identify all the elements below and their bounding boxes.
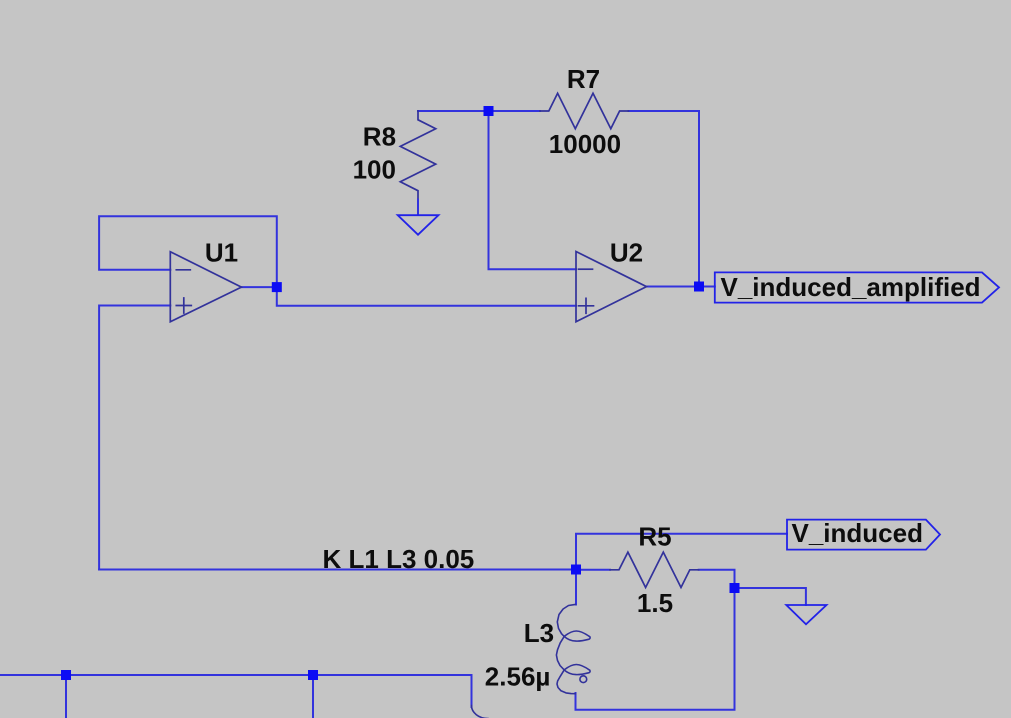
wire node down to L3 top (575, 570, 577, 605)
svg-text:L3: L3 (524, 618, 554, 648)
wire U1 output to U2 plus input (277, 287, 576, 306)
op-amp U2 (576, 252, 647, 322)
svg-text:K L1 L3 0.05: K L1 L3 0.05 (323, 544, 475, 574)
junction node R8/R7 (484, 106, 494, 116)
wire L3 bottom loop to R5 node (576, 588, 735, 710)
svg-text:V_induced_amplified: V_induced_amplified (721, 272, 981, 302)
svg-text:V_induced: V_induced (792, 518, 923, 548)
resistor R8 (400, 111, 435, 200)
wire bottom-left drop 2 (312, 675, 314, 718)
wire node to ground stub (735, 588, 806, 605)
svg-text:R5: R5 (638, 522, 671, 552)
wire R8 top to junction (418, 110, 489, 112)
wire K coupling line (99, 569, 576, 571)
resistor R5 (610, 552, 699, 587)
wire corner to L1 (471, 675, 473, 707)
wire junction down to U2 minus input (489, 111, 577, 269)
junction node U2 output (694, 282, 704, 292)
wire U1 output (241, 286, 276, 288)
svg-text:1.5: 1.5 (637, 588, 673, 618)
junction node K/R5/L3 (571, 565, 581, 575)
svg-text:R7: R7 (567, 64, 600, 94)
wire R8 bottom to ground (417, 200, 419, 216)
svg-text:2.56µ: 2.56µ (485, 662, 551, 692)
wire U2 output to flag node (647, 286, 715, 288)
net flag V_induced (787, 520, 940, 550)
resistor R7 (540, 93, 629, 128)
wire bottom-left bus (0, 674, 472, 676)
svg-text:100: 100 (353, 155, 396, 185)
inductor L1 (partial, bottom edge) (472, 706, 489, 718)
op-amp U1 (170, 252, 241, 322)
svg-text:10000: 10000 (549, 129, 621, 159)
ground under R8 (398, 215, 439, 235)
junction node R5 right (730, 583, 740, 593)
junction node bottom bus 1 (61, 670, 71, 680)
wire bottom-left drop 1 (65, 675, 67, 718)
junction node U1 output (272, 282, 282, 292)
svg-text:R8: R8 (363, 122, 396, 152)
svg-text:U1: U1 (205, 238, 238, 268)
wire U1 plus input (99, 306, 170, 570)
wire junction to R7 left (489, 110, 541, 112)
wire R5 right to corner down (699, 570, 735, 588)
ground right of R5 (786, 605, 826, 624)
wire R7 right to corner down to U2 output node (629, 111, 700, 287)
junction node bottom bus 2 (308, 670, 318, 680)
net flag V_induced_amplified (715, 272, 999, 302)
wire node to R5 left (576, 569, 610, 571)
wire node up to V_induced flag (576, 534, 787, 570)
wire U1 feedback loop (99, 216, 277, 287)
svg-text:U2: U2 (610, 238, 643, 268)
inductor L3 (556, 604, 590, 693)
